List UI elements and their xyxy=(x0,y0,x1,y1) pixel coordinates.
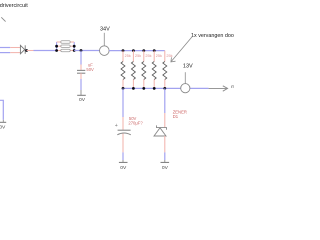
resistor R row3 xyxy=(61,49,70,51)
svg-text:0V: 0V xyxy=(0,124,6,130)
svg-text:drivercircuit: drivercircuit xyxy=(0,3,28,9)
svg-text:D1: D1 xyxy=(173,114,179,119)
wire branch down to zener xyxy=(164,88,166,113)
test point 34V xyxy=(100,26,111,55)
junction dots top rail xyxy=(122,49,125,52)
svg-text:270µF?: 270µF? xyxy=(128,121,143,126)
svg-text:25k: 25k xyxy=(125,54,131,58)
arrow output right xyxy=(209,86,228,91)
resistor block right bus xyxy=(73,42,75,51)
leader line top-left (cut off) xyxy=(1,17,5,21)
svg-text:0V: 0V xyxy=(162,165,169,171)
junction dots resistor block xyxy=(55,45,58,48)
ground symbol zener xyxy=(161,160,170,171)
ground symbol C2 xyxy=(119,160,128,171)
wire bottom rail xyxy=(123,87,209,89)
pin lead C2 bottom xyxy=(122,134,124,153)
resistor block left bus xyxy=(56,42,58,51)
pin leads resistor row3 xyxy=(57,50,61,52)
capacitor C2 electrolytic xyxy=(115,123,131,135)
test point 13V xyxy=(181,64,193,93)
wire C2 to ground xyxy=(122,152,124,160)
wire branch down to C2 xyxy=(122,88,124,117)
leader arrow annotation xyxy=(171,37,192,62)
pin lead diode output xyxy=(27,50,34,52)
wire stub left bottom xyxy=(0,100,3,120)
svg-text:m: m xyxy=(231,84,234,89)
pin lead diode bottom xyxy=(10,52,20,54)
svg-text:0V: 0V xyxy=(120,165,127,171)
zener diode D1 xyxy=(154,125,167,136)
svg-text:25k: 25k xyxy=(135,54,141,58)
resistor R3 vertical xyxy=(142,51,152,89)
wire main to cap branch xyxy=(74,50,99,52)
pin lead zener bottom xyxy=(164,136,166,152)
svg-text:13V: 13V xyxy=(183,64,193,70)
diode D1 (bridge) xyxy=(20,45,25,54)
pin lead C1 bottom xyxy=(80,73,82,79)
svg-text:25k: 25k xyxy=(156,54,162,58)
wire net input top xyxy=(0,47,10,49)
resistor R2 vertical xyxy=(131,51,141,89)
wire branch down to C1 xyxy=(80,51,82,65)
svg-text:+: + xyxy=(115,123,118,129)
svg-text:50V: 50V xyxy=(86,67,94,72)
pin leads resistor row2 xyxy=(57,45,61,47)
pin leads resistor row1 xyxy=(57,41,61,43)
wire net input bottom xyxy=(0,52,10,54)
resistor R row2 xyxy=(61,45,70,47)
ground symbol C1 xyxy=(77,90,86,103)
pin lead zener top xyxy=(164,113,166,127)
junction dots bottom rail xyxy=(122,87,125,90)
pin lead C1 top xyxy=(80,65,82,71)
wire main to resistor block xyxy=(34,50,57,52)
ground symbol left xyxy=(0,120,6,131)
capacitor C1 xyxy=(77,70,85,73)
svg-text:1x vervangen doo: 1x vervangen doo xyxy=(191,33,234,39)
svg-text:0V: 0V xyxy=(79,97,86,103)
svg-text:34V: 34V xyxy=(100,26,110,32)
resistor R5 vertical xyxy=(163,51,173,89)
resistor R1 vertical xyxy=(121,51,131,89)
wire C1 to ground xyxy=(80,79,82,90)
wire main to resistor bank xyxy=(109,50,165,52)
junction dot cap branch xyxy=(80,49,83,52)
resistor R row1 xyxy=(61,41,70,43)
pin lead diode top xyxy=(10,47,20,49)
pin lead C2 top xyxy=(122,117,124,130)
svg-text:25k: 25k xyxy=(145,54,151,58)
wire zener to ground xyxy=(164,152,166,160)
resistor R4 vertical xyxy=(152,51,162,89)
junction dot diode output xyxy=(25,49,28,52)
